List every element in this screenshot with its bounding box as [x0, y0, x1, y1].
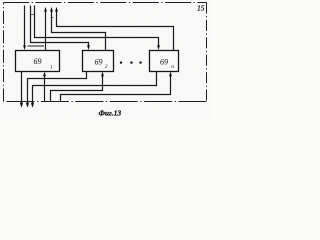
svg-text:2: 2 — [105, 64, 108, 70]
svg-text:69: 69 — [34, 57, 42, 66]
svg-text:15: 15 — [197, 3, 205, 12]
svg-text:п: п — [171, 64, 174, 70]
svg-text:Фиг.13: Фиг.13 — [99, 109, 122, 118]
svg-text:1: 1 — [50, 65, 53, 71]
svg-text:69: 69 — [95, 58, 103, 67]
svg-text:69: 69 — [160, 58, 168, 67]
